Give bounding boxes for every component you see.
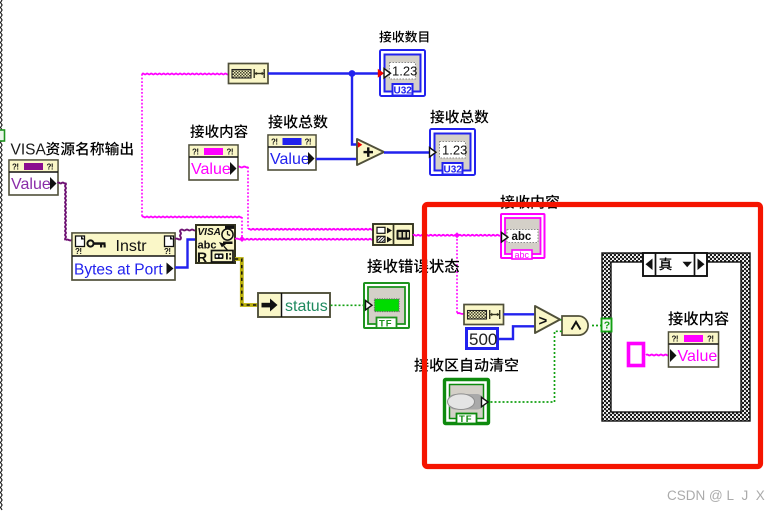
wire: string (magenta) junction → String Length 2 bbox=[456, 235, 458, 313]
wire: U32 (blue) Add → 接收总数 indicator bbox=[384, 151, 429, 153]
node: String Length 2 bbox=[464, 305, 504, 325]
svg-text:Value: Value bbox=[678, 348, 718, 365]
node: Unbundle by Name — status bbox=[258, 293, 330, 317]
wire: U32 (blue) 接收总数 Value → Add lower input bbox=[316, 158, 357, 160]
wire: U32 (blue) 500 → Greater? lower input bbox=[499, 326, 535, 339]
property node: VISA resource name output — Value bbox=[9, 160, 58, 195]
node: Add (+) bbox=[357, 139, 384, 165]
key glyph in property node header bbox=[87, 240, 93, 246]
svg-text:1.23: 1.23 bbox=[442, 143, 467, 158]
property node: 接收内容 — Value (write, in case) bbox=[668, 311, 728, 367]
indicator: 接收总数 (U32) bbox=[430, 110, 488, 176]
property node: 接收总数 — Value (U32) bbox=[268, 115, 328, 170]
wire: byte count (blue) Bytes at Port → VISA Read bbox=[175, 240, 196, 268]
local variable: 接收内容 (write) bbox=[629, 344, 644, 366]
wire junction (blue) bbox=[349, 70, 356, 77]
wire: boolean (green dotted) status → 接收错误状态 indicator bbox=[331, 304, 365, 306]
wire: error cluster (yellow/black) VISA Read → Unbundle status bbox=[235, 259, 258, 305]
wire: string (magenta) local var → Value bbox=[646, 354, 669, 357]
svg-text:?!: ?! bbox=[164, 247, 171, 256]
svg-text:Value: Value bbox=[11, 176, 51, 193]
indicator: 接收错误状态 (boolean TF) bbox=[364, 259, 459, 330]
svg-text:>: > bbox=[539, 313, 548, 330]
node: String Length 1 bbox=[229, 64, 269, 84]
junction on string wire at VISA Read output bbox=[239, 236, 245, 242]
input arrow on 接收总数 indicator bbox=[430, 148, 437, 158]
wire: VISA resource (purple) Value → property node Instr bbox=[58, 183, 73, 241]
svg-text:?!: ?! bbox=[707, 335, 714, 344]
svg-text:?!: ?! bbox=[47, 163, 54, 172]
svg-text:?!: ?! bbox=[227, 148, 234, 157]
svg-text:?!: ?! bbox=[192, 148, 199, 157]
wire: boolean Greater? → And bbox=[560, 319, 562, 321]
partially cut-off terminal on left edge bbox=[0, 130, 5, 141]
svg-text:?!: ?! bbox=[75, 247, 82, 256]
svg-text:VISA: VISA bbox=[11, 142, 47, 159]
svg-text:?: ? bbox=[604, 320, 610, 332]
case selector terminal ? bbox=[602, 319, 612, 332]
node: Concatenate Strings bbox=[373, 224, 413, 245]
wire: U32 (blue) String Length 2 → Greater? bbox=[504, 313, 536, 315]
svg-text:Value: Value bbox=[191, 161, 231, 178]
svg-text:?!: ?! bbox=[12, 163, 19, 172]
indicator: 接收数目 (U32) bbox=[379, 31, 428, 97]
wire: string (magenta) 接收内容 Value → Concatenate Strings upper input bbox=[238, 167, 374, 230]
control: 接收区自动清空 (boolean button) bbox=[414, 358, 518, 425]
svg-text:abc: abc bbox=[512, 231, 532, 243]
indicator: 接收内容 (string, abc) bbox=[500, 195, 559, 260]
svg-text:?!: ?! bbox=[305, 138, 312, 147]
svg-text:R: R bbox=[197, 249, 207, 265]
node: And bbox=[562, 316, 588, 335]
svg-text:U32: U32 bbox=[444, 165, 463, 176]
case selector label: ◀ 真 ▼ ▶ bbox=[643, 253, 707, 276]
case structure frame bbox=[602, 253, 750, 421]
node: Greater? (>) bbox=[535, 306, 560, 333]
node: VISA Read bbox=[196, 225, 235, 265]
wire: boolean (green dotted) 接收区自动清空 → And lower input bbox=[491, 331, 563, 402]
svg-text:?!: ?! bbox=[271, 138, 278, 147]
property node U1: Instr / Bytes at Port bbox=[72, 233, 175, 280]
wire: boolean (green dotted) And → case selector ? bbox=[592, 325, 601, 327]
svg-text:VISA: VISA bbox=[198, 227, 221, 238]
svg-text:500: 500 bbox=[469, 330, 497, 349]
svg-text:abc: abc bbox=[515, 250, 530, 260]
svg-text:U32: U32 bbox=[394, 86, 413, 97]
junction on string wire bbox=[454, 232, 460, 238]
constant: 500 (U32) bbox=[467, 329, 498, 350]
wire: string (magenta) Concatenate → junction → 接收内容 indicator bbox=[413, 234, 501, 237]
wire: string (magenta) VISA Read buffer out, branch to String Length 1 bbox=[142, 74, 373, 240]
svg-text:Instr: Instr bbox=[116, 238, 148, 255]
property node: 接收内容 — Value (string) bbox=[189, 124, 248, 180]
wire: VISA resource (purple) Instr → VISA Read bbox=[175, 230, 196, 240]
coercion dot + input arrow on 接收数目 bbox=[378, 69, 384, 78]
svg-text:TF: TF bbox=[379, 319, 393, 330]
svg-text:TF: TF bbox=[459, 414, 473, 425]
svg-text:status: status bbox=[285, 298, 328, 315]
wire: U32 (blue) junction → Add upper input bbox=[352, 74, 357, 145]
svg-text:Bytes at Port: Bytes at Port bbox=[74, 262, 163, 279]
red highlight rectangle (annotation) bbox=[425, 205, 761, 467]
while-loop left border (torn zigzag edge) bbox=[1, 0, 3, 510]
label: VISA资源名称输出 bbox=[11, 142, 133, 159]
svg-text:?!: ?! bbox=[672, 335, 679, 344]
svg-text:CSDN @ L J X: CSDN @ L J X bbox=[667, 488, 765, 503]
wire: U32 (blue) String Length 1 → 接收数目 indicator bbox=[268, 72, 379, 74]
svg-text:1.23: 1.23 bbox=[392, 64, 417, 79]
svg-text:Value: Value bbox=[270, 151, 310, 168]
